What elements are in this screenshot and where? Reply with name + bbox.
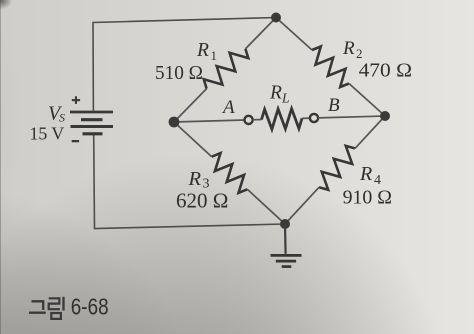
svg-text:S: S bbox=[59, 111, 65, 125]
resistor R3 zigzag bbox=[212, 153, 248, 193]
wire: terminal A to RL zigzag bbox=[253, 119, 262, 121]
svg-text:R: R bbox=[342, 38, 355, 59]
svg-text:620 Ω: 620 Ω bbox=[176, 189, 228, 213]
label R3 bbox=[188, 168, 210, 192]
label A bbox=[221, 97, 235, 118]
caption figure label: 그림 6-68 bbox=[29, 297, 64, 319]
wire: R2 branch lower segment (zigzag to right node) bbox=[349, 84, 385, 117]
wire: RL zigzag to terminal B bbox=[302, 117, 310, 119]
label 510 ohm bbox=[155, 62, 203, 84]
label R1 bbox=[196, 40, 217, 63]
battery - polarity mark bbox=[72, 140, 79, 142]
node B: right junction dot bbox=[380, 111, 390, 121]
label 620 ohm bbox=[176, 189, 228, 213]
terminal A open circle bbox=[245, 116, 253, 124]
wire: R2 branch upper segment (top node to zigzag) bbox=[276, 18, 312, 51]
wire: R3 branch lower segment (zigzag to bottom node) bbox=[247, 189, 285, 224]
wire: R3 branch upper segment (left node to zigzag) bbox=[174, 122, 212, 157]
svg-text:R: R bbox=[188, 168, 202, 190]
wire: bottom rail from battery - terminal to bottom node bbox=[94, 135, 285, 229]
label 470 ohm bbox=[359, 60, 412, 82]
svg-text:510 Ω: 510 Ω bbox=[155, 62, 203, 84]
node: top junction dot bbox=[271, 13, 281, 23]
svg-text:910 Ω: 910 Ω bbox=[343, 187, 392, 209]
label R4 bbox=[359, 163, 381, 188]
resistor RL zigzag bbox=[262, 109, 303, 130]
svg-text:L: L bbox=[281, 90, 290, 105]
caption number 6-68 bbox=[71, 294, 109, 320]
wire: ground stem bbox=[284, 224, 287, 254]
label R2 bbox=[342, 38, 363, 61]
label VS bbox=[48, 103, 65, 125]
wire: R1 branch lower segment (left node to zigzag) bbox=[174, 89, 207, 122]
battery VS 15V: four plates bbox=[70, 112, 113, 134]
label RL bbox=[269, 83, 290, 106]
svg-text:R: R bbox=[359, 163, 372, 185]
svg-text:6-68: 6-68 bbox=[71, 294, 109, 320]
svg-text:15 V: 15 V bbox=[30, 124, 65, 144]
resistor R4 zigzag bbox=[319, 146, 355, 190]
svg-text:1: 1 bbox=[211, 48, 218, 63]
resistor R1 zigzag bbox=[204, 49, 249, 89]
wire: top rail from battery + terminal to top node bbox=[93, 18, 276, 111]
terminal B open circle bbox=[310, 114, 318, 122]
wire: middle branch from left node to terminal A bbox=[174, 120, 245, 122]
label B bbox=[328, 95, 340, 116]
svg-text:470 Ω: 470 Ω bbox=[359, 60, 412, 82]
battery + polarity mark bbox=[72, 96, 80, 104]
svg-text:B: B bbox=[328, 95, 340, 116]
wire: R1 branch upper segment (zigzag to top node) bbox=[245, 18, 276, 49]
label 15 V bbox=[30, 124, 65, 144]
svg-text:R: R bbox=[196, 40, 209, 61]
node: bottom junction dot bbox=[280, 219, 290, 229]
resistor R2 zigzag bbox=[312, 47, 349, 88]
wire: terminal B to right node bbox=[318, 116, 385, 118]
ground symbol bbox=[271, 255, 302, 266]
node A: left junction dot bbox=[169, 117, 180, 128]
wire: R4 branch lower segment (zigzag to bottom node) bbox=[285, 187, 319, 224]
svg-text:R: R bbox=[269, 83, 282, 104]
svg-text:A: A bbox=[221, 97, 235, 118]
wire: R4 branch upper segment (right node to zigzag) bbox=[355, 116, 385, 148]
label 910 ohm bbox=[343, 187, 392, 209]
